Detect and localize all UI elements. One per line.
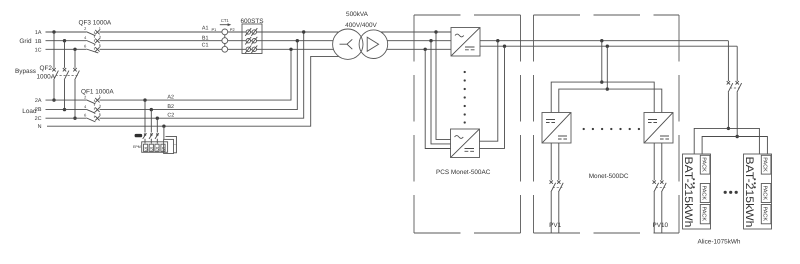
node battery bus minus: [736, 135, 739, 138]
wire pcs loop dc plus: [480, 41, 498, 142]
svg-text:3: 3: [99, 35, 101, 40]
svg-text:PACK: PACK: [701, 207, 707, 222]
PCS cabinet dashed box: [414, 15, 521, 233]
node battery bus plus: [727, 127, 730, 130]
converter module n AC/DC: [451, 129, 480, 158]
battery rack 1 pack 2: [700, 184, 710, 203]
wire pcs dc out minus: [480, 45, 737, 47]
CT phase A: [222, 29, 228, 35]
svg-text:BAT-215kWh: BAT-215kWh: [743, 157, 755, 228]
svg-text:6: 6: [84, 44, 86, 49]
battery rack 1 pack 1: [700, 155, 710, 174]
breaker QF1 pole 3: [84, 112, 101, 122]
transformer T1 secondary winding: [359, 30, 388, 59]
svg-text:BAT-215kWh: BAT-215kWh: [682, 157, 694, 228]
node 2B junction bypass: [63, 108, 66, 111]
wire battery bus minus: [702, 137, 767, 155]
label MCB tag: [135, 134, 143, 137]
fuse meter phase B: [149, 133, 153, 139]
node dc bus plus tap: [600, 39, 603, 42]
wire secondary phase c: [387, 48, 451, 50]
svg-text:B1: B1: [202, 36, 209, 42]
wire grid phase 1A: [46, 31, 339, 33]
breaker QF2 linkage: [56, 74, 79, 76]
node 1A junction bypass: [52, 30, 55, 33]
wire neutral N: [47, 56, 339, 126]
fuse meter phase C: [155, 133, 159, 139]
meter box EPM1: [142, 142, 168, 153]
wire battery feed plus: [727, 41, 729, 129]
switch PV1 pole plus: [550, 143, 556, 233]
node 1C junction bypass: [73, 48, 76, 51]
svg-text:2: 2: [84, 26, 86, 31]
CT arrow: [220, 23, 232, 26]
breaker QF3 pole 1: [84, 26, 101, 36]
wire meter tap drop N: [163, 126, 165, 139]
svg-text:1000A: 1000A: [37, 74, 56, 81]
svg-text:N: N: [38, 124, 42, 130]
DC cabinet dashed box: [534, 15, 680, 233]
transformer T1 delta symbol: [367, 37, 378, 51]
svg-text:C2: C2: [167, 113, 174, 119]
transformer T1 wye symbol: [340, 39, 353, 49]
wire dc dist minus: [559, 89, 662, 112]
meter element 1: [144, 144, 149, 152]
switch PV10 linkage: [656, 187, 666, 189]
svg-text:PACK: PACK: [701, 186, 707, 201]
svg-text:P1: P1: [212, 27, 217, 32]
node dc dist plus: [600, 80, 603, 83]
ellipsis pcs modules: [464, 71, 466, 124]
fuse meter phase A: [143, 133, 147, 139]
wire meter tap drop C: [156, 118, 158, 143]
wire pcs loop dc minus: [480, 46, 505, 148]
svg-text:PACK: PACK: [701, 157, 707, 172]
svg-text:2: 2: [84, 94, 86, 99]
breaker QF3 pole 2: [84, 35, 101, 45]
svg-text:Grid: Grid: [19, 38, 32, 45]
svg-text:CT1: CT1: [221, 18, 230, 23]
wire dc drop minus: [606, 46, 608, 89]
breaker QF1 pole 1: [84, 94, 101, 104]
node 2A junction bypass: [52, 98, 55, 101]
battery rack 1 ellipsis: [693, 178, 695, 188]
svg-text:A2: A2: [167, 94, 174, 100]
STS box: [242, 24, 262, 54]
wire secondary phase b: [388, 40, 452, 42]
meter element 4: [161, 144, 166, 152]
svg-text:2C: 2C: [35, 116, 42, 122]
svg-text:2B: 2B: [35, 107, 42, 113]
CT phase B: [222, 38, 228, 44]
wire meter neutral loop: [166, 136, 177, 152]
svg-text:6: 6: [84, 112, 86, 117]
wire meter tap drop B: [150, 110, 152, 144]
svg-text:B2: B2: [167, 104, 174, 110]
svg-text:1A: 1A: [35, 30, 42, 36]
wire dc dist plus: [551, 82, 654, 112]
svg-text:1: 1: [99, 26, 101, 31]
meter element 2: [149, 144, 154, 152]
breaker QF2 pole 1 (vertical): [52, 32, 58, 100]
battery rack n pack 3: [761, 205, 771, 224]
switch PV10 pole plus: [653, 143, 659, 233]
svg-text:PACK: PACK: [762, 157, 768, 172]
ellipsis dc modules: [583, 128, 641, 130]
svg-text:1C: 1C: [35, 47, 42, 53]
switch battery plus: [727, 81, 733, 92]
wire pcs dc out plus: [480, 40, 728, 42]
node junction 2B to B1: [296, 39, 299, 42]
svg-text:C1: C1: [202, 42, 209, 48]
svg-text:A1: A1: [202, 25, 209, 31]
svg-text:QF2: QF2: [40, 65, 53, 72]
breaker QF3 linkage: [93, 32, 95, 52]
battery rack n pack 1: [761, 155, 771, 174]
wire load phase 2A: [46, 49, 292, 100]
breaker QF2 pole 2 (vertical): [63, 41, 69, 110]
breaker QF2 pole 3 (vertical): [73, 49, 79, 118]
svg-text:1B: 1B: [35, 39, 42, 45]
node dc plus loop tap: [496, 39, 499, 42]
wire dc drop plus: [601, 41, 603, 82]
svg-text:Alice-1075kWh: Alice-1075kWh: [698, 239, 741, 246]
switch battery linkage: [730, 87, 740, 89]
svg-text:5: 5: [99, 43, 101, 48]
wire grid phase 1C: [46, 48, 334, 50]
battery rack n pack 2: [761, 184, 771, 203]
switch PV1 pole minus: [557, 143, 563, 233]
node dc dist minus: [606, 87, 609, 90]
CT phase C: [222, 46, 228, 52]
node dc bus minus tap: [606, 45, 609, 48]
svg-text:EPM: EPM: [133, 145, 141, 149]
STS phase B element: [245, 37, 257, 45]
breaker QF3 pole 3: [84, 43, 101, 53]
svg-text:5: 5: [99, 112, 101, 117]
svg-text:PV10: PV10: [652, 222, 668, 229]
svg-text:PACK: PACK: [762, 207, 768, 222]
node junction 2C to A1: [302, 30, 305, 33]
converter module 1 AC/DC: [451, 28, 480, 57]
battery rack 1: [682, 154, 711, 229]
converter DC/DC 1: [542, 113, 571, 144]
node meter tap 2A: [143, 98, 146, 101]
battery rack n: [743, 154, 772, 229]
breaker QF1 linkage: [93, 100, 95, 120]
node meter tap 2B: [150, 108, 153, 111]
node meter tap N: [162, 125, 165, 128]
node tap b: [429, 39, 432, 42]
wire secondary phase a: [381, 31, 451, 33]
wire load phase 2C: [46, 32, 304, 118]
battery rack 1 pack 3: [700, 205, 710, 224]
svg-text:500kVA: 500kVA: [346, 11, 369, 18]
battery rack n ellipsis: [754, 178, 756, 188]
CT chain link: [224, 32, 226, 49]
STS phase C element: [245, 46, 257, 54]
switch battery minus: [736, 81, 742, 92]
wire pcs loop phase c: [425, 49, 451, 148]
converter DC/DC 10: [644, 113, 673, 144]
wire pcs loop phase a: [436, 32, 451, 139]
node dc minus loop tap: [503, 45, 506, 48]
wire grid phase 1B: [46, 40, 334, 42]
wire meter tap drop A: [144, 100, 146, 143]
svg-text:1: 1: [99, 94, 101, 99]
svg-text:PV1: PV1: [549, 222, 562, 229]
meter element 3: [155, 144, 160, 152]
wire battery feed minus: [736, 46, 738, 136]
svg-text:P2: P2: [230, 27, 235, 32]
switch PV1 linkage: [553, 187, 563, 189]
node junction 2A to C1: [289, 48, 292, 51]
node 1B junction bypass: [63, 39, 66, 42]
breaker QF1 pole 2: [84, 103, 101, 113]
node 2C junction bypass: [73, 117, 76, 120]
svg-text:Monet-500DC: Monet-500DC: [589, 173, 629, 180]
svg-text:Bypass: Bypass: [15, 68, 36, 75]
switch PV10 pole minus: [660, 143, 666, 233]
svg-text:2A: 2A: [35, 98, 42, 104]
transformer T1 primary winding: [333, 29, 363, 59]
svg-text:3: 3: [99, 103, 101, 108]
svg-text:PCS Monet-500AC: PCS Monet-500AC: [436, 169, 491, 176]
ellipsis racks: [724, 191, 738, 194]
node tap a: [434, 30, 437, 33]
meter aux box: [164, 139, 178, 153]
wire load phase 2B: [46, 41, 298, 110]
node tap c: [424, 48, 427, 51]
STS phase A element: [245, 28, 257, 36]
wire pcs loop phase b: [431, 41, 451, 144]
wire battery bus plus: [694, 128, 759, 154]
svg-text:400V/400V: 400V/400V: [345, 22, 377, 29]
node meter tap 2C: [156, 117, 159, 120]
svg-text:PACK: PACK: [762, 186, 768, 201]
